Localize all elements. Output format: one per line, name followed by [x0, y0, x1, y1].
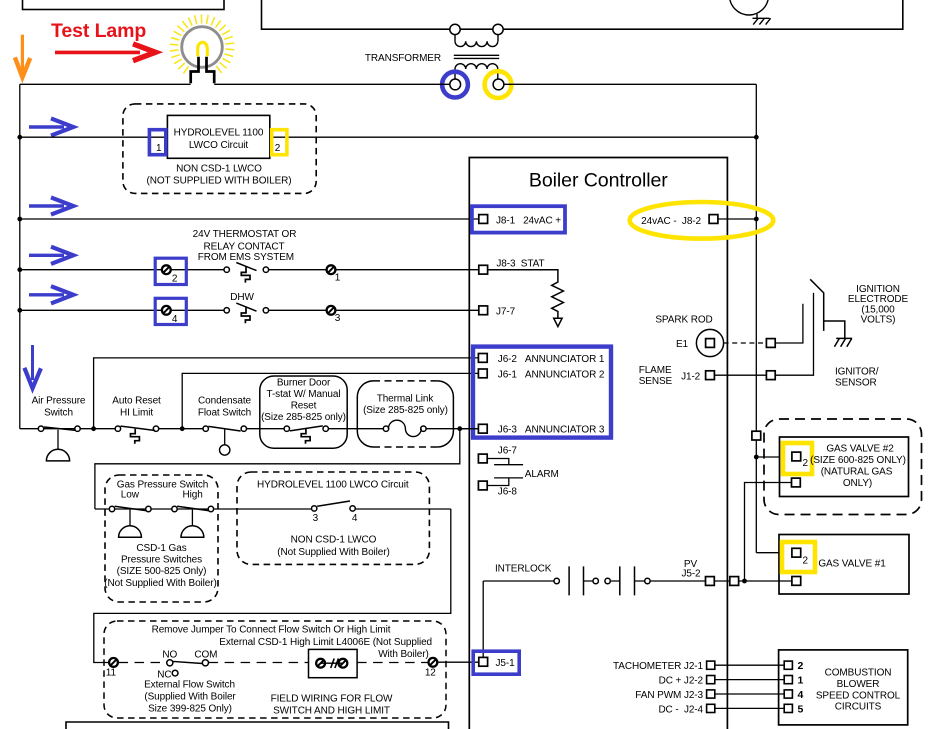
junction: [754, 135, 759, 140]
terminal blower pin 4: [784, 690, 792, 698]
wire thermostat supply row (y=219): [20, 218, 479, 220]
svg-text:J8-3 STAT: J8-3 STAT: [496, 258, 544, 269]
svg-text:CSD-1 Gas: CSD-1 Gas: [136, 543, 186, 554]
svg-text:Switch: Switch: [44, 408, 73, 419]
terminal gas valve 2 pin 2: [792, 452, 801, 461]
terminal gas valve 1 lower: [792, 577, 801, 586]
svg-text:J6-7: J6-7: [498, 446, 518, 457]
terminal gas valve 2 lower: [792, 478, 801, 487]
terminal J2-2: [707, 676, 715, 684]
highlight blue box screw 2: [155, 258, 186, 284]
svg-text:GAS VALVE #1: GAS VALVE #1: [818, 559, 886, 570]
junction: [17, 308, 22, 313]
wire J6-7 to alarm contact: [487, 459, 523, 465]
svg-text:J6-8: J6-8: [498, 487, 518, 498]
svg-text:2: 2: [798, 660, 804, 672]
svg-text:J6-1 ANNUNCIATOR 2: J6-1 ANNUNCIATOR 2: [498, 369, 605, 380]
junction: [754, 455, 759, 460]
thermal link element: [383, 420, 426, 436]
wire blower row: [715, 679, 784, 681]
terminal J8-3: [479, 265, 488, 274]
svg-text:2: 2: [172, 273, 178, 284]
wire to gas valve 2 terminal: [756, 456, 792, 458]
thermostat contact row (screw 2 to 1): [20, 263, 479, 283]
terminal J6-8: [478, 481, 487, 490]
terminal gas valve 1 pin 2: [792, 548, 801, 557]
wire flame sensor rod: [775, 293, 813, 375]
gas pressure switch high: [172, 506, 214, 537]
terminal blower pin 1: [784, 676, 792, 684]
highlight yellow ellipse 24vAC-J8-2: [630, 202, 774, 239]
svg-text:(Not Supplied With Boiler): (Not Supplied With Boiler): [277, 547, 389, 558]
highlight blue box annunciators: [473, 347, 611, 438]
box Thermal Link: [373, 380, 437, 382]
svg-text:With Boiler): With Boiler): [378, 649, 428, 660]
air pressure switch: [38, 426, 80, 461]
svg-text:2: 2: [803, 556, 809, 567]
wire E1 dashed: [724, 342, 767, 344]
terminal blower pin 2: [784, 661, 792, 669]
svg-text:Thermal Link: Thermal Link: [377, 394, 435, 405]
terminal J6-1: [478, 369, 487, 378]
highlight yellow ring on transformer secondary terminal: [485, 71, 512, 98]
svg-text:(Size 285-825 only): (Size 285-825 only): [363, 405, 448, 416]
terminal J5-1: [479, 657, 488, 666]
terminal J2-3: [707, 690, 715, 698]
terminal J2-1: [707, 661, 715, 669]
wire 24VAC return rail (right, x=756): [755, 84, 757, 552]
terminal J2-4: [707, 704, 715, 712]
svg-text:Boiler Controller: Boiler Controller: [529, 170, 668, 192]
box GAS VALVE #2: [780, 437, 909, 497]
box bottom section (cut off): [66, 722, 449, 729]
terminal J8-2: [709, 215, 718, 224]
svg-text:NO: NO: [162, 649, 177, 660]
svg-text:1: 1: [798, 675, 804, 687]
svg-text:FIELD WIRING FOR FLOW: FIELD WIRING FOR FLOW: [271, 694, 393, 705]
box CSD-1 Gas Pressure Switches (dashed): [105, 475, 218, 602]
svg-text:SPARK ROD: SPARK ROD: [655, 314, 712, 325]
svg-text:Size 399-825 Only): Size 399-825 Only): [148, 703, 232, 714]
terminal J6-3: [478, 424, 487, 433]
svg-text:DC - J2-4: DC - J2-4: [658, 704, 703, 715]
wire rail to gas valve 1: [756, 552, 792, 554]
svg-text:J6-3 ANNUNCIATOR 3: J6-3 ANNUNCIATOR 3: [498, 425, 605, 436]
red arrow annotation: [55, 44, 156, 61]
svg-text:TACHOMETER J2-1: TACHOMETER J2-1: [613, 661, 704, 672]
box Burner Door T-stat: [260, 376, 347, 448]
svg-text:VOLTS): VOLTS): [861, 315, 896, 326]
svg-text:Air Pressure: Air Pressure: [32, 396, 86, 407]
box GAS VALVE #1: [779, 535, 909, 595]
svg-text:DC + J2-2: DC + J2-2: [659, 676, 704, 687]
svg-text:DHW: DHW: [230, 292, 254, 303]
blue arrow annotation row 1: [29, 118, 73, 135]
wire gas valve 2 lower to PV junction: [745, 483, 792, 581]
junction: [17, 135, 22, 140]
junction: [742, 579, 747, 584]
transformer T1: [450, 24, 504, 90]
svg-text:5: 5: [798, 703, 804, 715]
box HYDROLEVEL 1100 LWCO Circuit: [167, 115, 269, 158]
wire chain to LWCO interlock: [95, 429, 460, 509]
wire safety chain: [20, 428, 479, 430]
svg-text:J8-1 24vAC +: J8-1 24vAC +: [496, 215, 561, 226]
svg-text:HI Limit: HI Limit: [120, 408, 153, 419]
junction: [91, 426, 96, 431]
svg-text:HYDROLEVEL 1100 LWCO Circuit: HYDROLEVEL 1100 LWCO Circuit: [257, 479, 409, 490]
svg-text:COM: COM: [194, 649, 217, 660]
svg-text:4: 4: [352, 513, 358, 524]
wire J6-2 annunciator 1: [94, 358, 479, 429]
highlight yellow box gas valve 2 terminal: [783, 443, 812, 474]
box line-voltage section top-right (cut off): [262, 0, 903, 29]
wire gas switch chain: [95, 508, 451, 510]
svg-text:(SIZE 500-825 Only): (SIZE 500-825 Only): [117, 566, 207, 577]
svg-text:GAS VALVE #2: GAS VALVE #2: [826, 443, 894, 454]
svg-text:3: 3: [335, 313, 341, 324]
condensate float switch: [203, 426, 247, 455]
svg-text:External Flow Switch: External Flow Switch: [144, 680, 235, 691]
junction: [457, 426, 462, 431]
terminal J6-2: [478, 354, 487, 363]
blue arrow annotation row 4: [29, 286, 73, 303]
svg-text:ALARM: ALARM: [525, 469, 559, 480]
earth ground circle (cut off): [730, 0, 769, 15]
jumper screws: [316, 659, 347, 669]
highlight blue box J8-1: [472, 206, 565, 232]
svg-text:4: 4: [798, 689, 804, 701]
svg-text:Remove Jumper To Connect Flow: Remove Jumper To Connect Flow Switch Or …: [152, 625, 391, 636]
svg-text:High: High: [183, 490, 203, 501]
wire J8-2 to rail: [718, 218, 756, 220]
highlight yellow box terminal 2: [272, 130, 287, 155]
box jumper: [309, 649, 358, 677]
earth ground symbol: [753, 14, 771, 25]
svg-text:J7-7: J7-7: [496, 306, 516, 317]
terminal blower pin 5: [784, 704, 792, 712]
svg-text:J6-2 ANNUNCIATOR 1: J6-2 ANNUNCIATOR 1: [498, 354, 605, 365]
svg-text:SPEED CONTROL: SPEED CONTROL: [816, 690, 901, 701]
highlight yellow box gas valve 1 terminal: [782, 542, 815, 572]
wire LWCO chain to flow switch: [94, 509, 451, 663]
wire interlock row: [483, 580, 705, 582]
screw terminal 12: [429, 658, 438, 667]
svg-text:COMBUSTION: COMBUSTION: [825, 668, 892, 679]
blue arrow annotation row 2: [29, 197, 73, 214]
svg-text:J1-2: J1-2: [681, 372, 701, 383]
svg-text:IGNITOR/: IGNITOR/: [835, 366, 879, 377]
blue down arrow annotation: [24, 345, 41, 388]
LWCO interlock switch 3-4: [312, 501, 356, 511]
flow switch NO/COM contacts: [167, 660, 209, 676]
svg-text:LWCO Circuit: LWCO Circuit: [189, 140, 248, 151]
svg-text:2: 2: [275, 143, 281, 154]
svg-text:SWITCH AND HIGH LIMIT: SWITCH AND HIGH LIMIT: [273, 705, 390, 716]
svg-text:External CSD-1 High Limit L400: External CSD-1 High Limit L4006E (Not Su…: [219, 637, 432, 648]
wire 24VAC hot bus (top, y=84): [20, 83, 757, 85]
wire 12 to J5-1: [437, 661, 479, 663]
svg-text:BLOWER: BLOWER: [837, 679, 880, 690]
svg-text:E1: E1: [676, 339, 689, 350]
svg-text:J5-1: J5-1: [496, 658, 516, 669]
svg-text:TRANSFORMER: TRANSFORMER: [365, 53, 441, 64]
box flow switch field wiring (dashed): [104, 621, 446, 718]
svg-text:12: 12: [425, 668, 436, 679]
svg-text:NON CSD-1 LWCO: NON CSD-1 LWCO: [291, 535, 377, 546]
svg-text:Pressure Switches: Pressure Switches: [121, 555, 202, 566]
blue arrow annotation row 3: [29, 247, 73, 264]
wire blower row: [715, 664, 784, 666]
box Boiler Controller: [469, 158, 727, 729]
svg-text:(NATURAL GAS: (NATURAL GAS: [821, 466, 893, 477]
junction: [17, 267, 22, 272]
highlight blue ring on transformer secondary terminal: [442, 72, 468, 98]
svg-text:Test Lamp: Test Lamp: [51, 20, 146, 42]
svg-text:Auto Reset: Auto Reset: [112, 396, 161, 407]
ground (ignition electrode): [834, 338, 852, 346]
terminal controller edge: [730, 577, 739, 586]
box line-voltage section top-left (cut off): [23, 0, 225, 10]
svg-text:(Size 285-825 only): (Size 285-825 only): [261, 412, 346, 423]
resistor (internal pull): [488, 270, 564, 319]
wire PV to gas valve 1: [714, 580, 792, 582]
highlight blue box screw 4: [155, 298, 186, 324]
svg-text:1: 1: [156, 143, 162, 154]
svg-text:INTERLOCK: INTERLOCK: [495, 564, 552, 575]
gas pressure switch low: [109, 506, 151, 537]
terminal J5-2 PV: [706, 577, 715, 586]
DHW contact row (screw 4 to 3): [20, 303, 479, 323]
terminal J6-7: [478, 454, 487, 463]
interlock connector contacts: [554, 566, 650, 595]
svg-text:T-stat W/ Manual: T-stat W/ Manual: [267, 389, 341, 400]
orange arrow annotation: [15, 35, 30, 78]
svg-text:FROM EMS SYSTEM: FROM EMS SYSTEM: [198, 252, 294, 263]
svg-text:Burner Door: Burner Door: [277, 378, 331, 389]
svg-text:(NOT SUPPLIED WITH BOILER): (NOT SUPPLIED WITH BOILER): [146, 175, 291, 186]
svg-text:FAN PWM J2-3: FAN PWM J2-3: [635, 690, 703, 701]
wire LWCO row (y=137): [20, 136, 757, 138]
junction: [17, 217, 22, 222]
svg-text:HYDROLEVEL 1100: HYDROLEVEL 1100: [174, 128, 264, 139]
svg-text:24vAC - J8-2: 24vAC - J8-2: [641, 216, 701, 227]
screw terminal 11: [109, 658, 118, 667]
burner door t-stat switch: [284, 426, 328, 444]
wire left supply rail (x=20): [19, 84, 21, 428]
svg-text:J5-2: J5-2: [681, 569, 701, 580]
wire J6-3 annunciator 3: [460, 428, 479, 430]
terminal rail connector: [752, 431, 761, 440]
svg-text:Gas Pressure Switch: Gas Pressure Switch: [117, 479, 208, 490]
wire interlock down to J5-1: [482, 581, 484, 657]
svg-text:Condensate: Condensate: [198, 396, 251, 407]
wire blower row: [715, 693, 784, 695]
electrode E1 circle: [696, 329, 723, 356]
wire blower row: [715, 707, 784, 709]
junction: [180, 426, 185, 431]
svg-text:ONLY): ONLY): [843, 478, 872, 489]
terminal J7-7: [479, 306, 488, 315]
svg-text:24V THERMOSTAT OR: 24V THERMOSTAT OR: [193, 229, 297, 240]
wire J6-8 to alarm contact: [487, 478, 523, 486]
svg-text:11: 11: [106, 668, 117, 679]
wire J6-1 annunciator 2: [182, 373, 478, 428]
wire flow row dashed segments: [119, 662, 167, 664]
svg-text:(Supplied With Boiler: (Supplied With Boiler: [144, 691, 236, 702]
box COMBUSTION BLOWER SPEED CONTROL CIRCUITS: [779, 650, 908, 725]
wire flame sense: [714, 374, 766, 376]
svg-text:Reset: Reset: [291, 400, 317, 411]
ignition electrode (spark rod): [810, 279, 845, 338]
junction: [754, 217, 759, 222]
svg-text:1: 1: [335, 273, 341, 284]
test lamp (indicator bulb): [170, 15, 235, 84]
svg-text:(SIZE 600-825 ONLY): (SIZE 600-825 ONLY): [810, 455, 906, 466]
svg-text:FLAME: FLAME: [639, 365, 672, 376]
svg-text:(Not Supplied With Boiler): (Not Supplied With Boiler): [104, 578, 216, 589]
svg-text:Float Switch: Float Switch: [198, 408, 251, 419]
svg-text:CIRCUITS: CIRCUITS: [835, 702, 882, 713]
terminal flame connector: [766, 371, 775, 380]
auto reset HI limit switch: [115, 426, 158, 444]
svg-text:3: 3: [313, 513, 319, 524]
box gas valve 2 outer (dashed): [764, 419, 922, 515]
svg-text:NON CSD-1 LWCO: NON CSD-1 LWCO: [176, 164, 262, 175]
terminal spark connector: [766, 339, 775, 348]
terminal E1: [706, 339, 715, 348]
svg-text:Low: Low: [121, 490, 140, 501]
svg-text:2: 2: [803, 458, 809, 469]
terminal J1-2: [706, 371, 715, 380]
highlight blue box terminal 1: [149, 130, 165, 155]
svg-text:SENSE: SENSE: [639, 376, 673, 387]
box HYDROLEVEL 1100 LWCO Circuit (dashed): [237, 472, 429, 564]
box NON CSD-1 LWCO (dashed): [123, 104, 316, 193]
highlight blue box J5-1: [473, 651, 519, 674]
wire spark to electrode: [775, 304, 803, 343]
terminal J8-1: [479, 215, 488, 224]
svg-text:SENSOR: SENSOR: [835, 377, 877, 388]
